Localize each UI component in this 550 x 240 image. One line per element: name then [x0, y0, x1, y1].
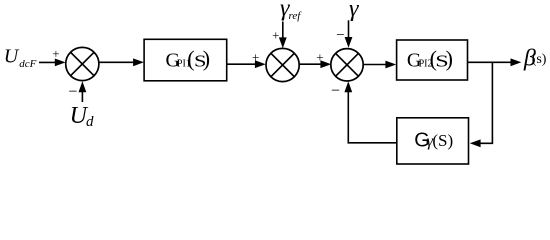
- svg-text:−: −: [336, 28, 344, 44]
- wire gamma_ref to sum2 (top): [279, 22, 287, 49]
- svg-text:+: +: [252, 50, 259, 65]
- node beta(s) output label: [523, 45, 547, 71]
- wire UdcF to sum1: [39, 59, 66, 67]
- svg-text:+: +: [272, 27, 279, 42]
- svg-text:U: U: [4, 45, 20, 67]
- feedback wire Ggamma to S3: [344, 81, 396, 143]
- svg-text:−: −: [331, 83, 340, 100]
- node gamma_ref label: [280, 0, 302, 22]
- svg-text:(S): (S): [432, 131, 453, 150]
- summing junction S2: [266, 48, 299, 81]
- node UdcF label: [4, 45, 37, 70]
- svg-text:+: +: [52, 46, 59, 61]
- wire GPI1 to sum2: [228, 60, 266, 68]
- svg-text:d: d: [86, 114, 94, 130]
- svg-text:dcF: dcF: [19, 58, 36, 70]
- svg-text:ref: ref: [289, 10, 303, 22]
- wire S3 to GPI2: [364, 61, 396, 69]
- svg-text:(s): (s): [532, 52, 547, 67]
- node Ud label: [70, 103, 94, 130]
- block Ggamma(S): [397, 118, 469, 164]
- svg-text:−: −: [68, 84, 77, 101]
- wire gamma to sum3 (top): [345, 20, 353, 48]
- wire S2 to S3: [299, 60, 331, 68]
- wire Ud input (bottom of S1): [79, 81, 87, 102]
- summing junction S3: [331, 49, 363, 81]
- svg-text:): ): [446, 46, 453, 71]
- wire S1 to GPI1: [99, 58, 144, 66]
- svg-text:): ): [203, 46, 210, 71]
- output wire GPI2 to beta: [468, 58, 521, 66]
- summing junction S1: [66, 47, 99, 80]
- block GPI1(s): [144, 39, 227, 81]
- svg-text:γ: γ: [349, 0, 359, 22]
- feedback branch down from output wire: [470, 62, 493, 147]
- block GPI2(s): [397, 40, 468, 80]
- svg-text:+: +: [316, 50, 323, 65]
